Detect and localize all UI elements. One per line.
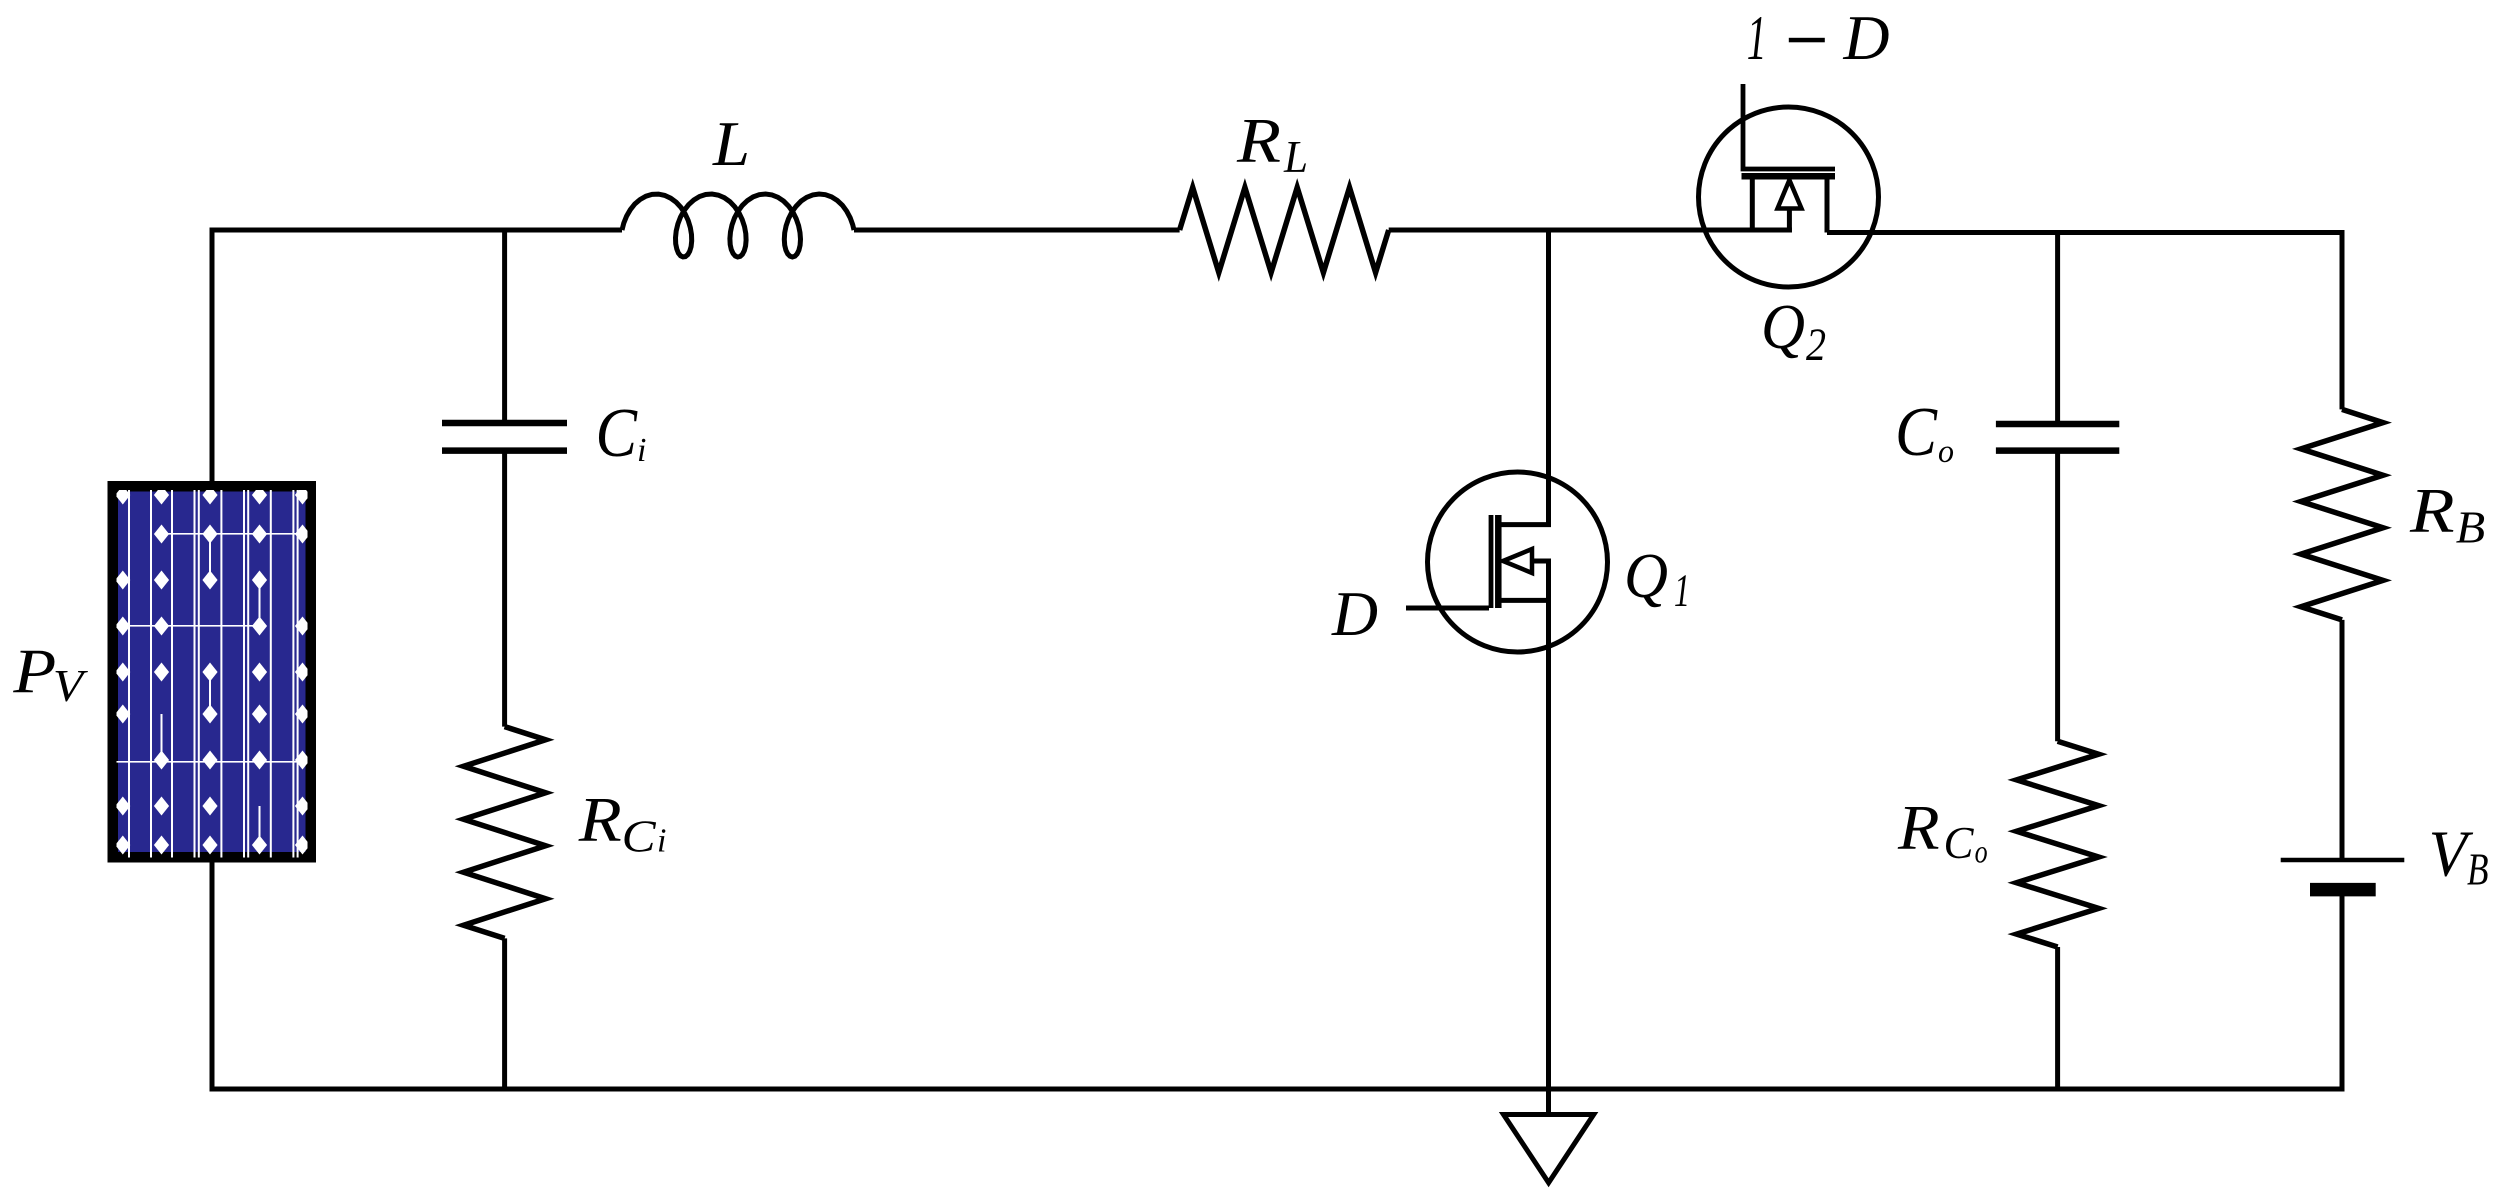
svg-text:D: D [1331, 579, 1378, 649]
solar panel PV [113, 486, 311, 858]
svg-text:o: o [1975, 835, 1988, 871]
svg-text:Q: Q [1761, 292, 1805, 362]
ground [1504, 1115, 1594, 1183]
wire bottom bus: PV bottom, along bottom, up right side to battery minus [212, 862, 2342, 1089]
PV cell vertical gridlines [128, 490, 130, 858]
svg-text:R: R [578, 785, 622, 855]
svg-text:B: B [2467, 843, 2489, 894]
svg-text:i: i [657, 823, 666, 860]
svg-text:1: 1 [1674, 565, 1690, 617]
wire node B: top bus junction down to Co top plate [2055, 230, 2060, 424]
transistor Q1 (NMOS) [1406, 472, 1608, 652]
svg-text:R: R [2409, 476, 2455, 546]
wire node A: top bus junction down to Ci top plate [502, 230, 507, 423]
resistor RL [1180, 188, 1389, 273]
resistor RCo [2017, 741, 2099, 947]
wire Q1 source/bulk down to bottom bus and ground stub [1546, 561, 1551, 1115]
svg-text:C: C [622, 811, 657, 862]
svg-text:D: D [1842, 3, 1889, 73]
wire top-left corner: top bus to PV panel top [212, 230, 622, 481]
svg-text:P: P [12, 636, 56, 706]
PV cell horizontal gridlines [160, 533, 308, 535]
svg-text:2: 2 [1806, 319, 1826, 371]
svg-text:C: C [1944, 817, 1975, 868]
wire RCo bottom to bottom bus [2055, 947, 2060, 1089]
svg-text:1: 1 [1747, 2, 1767, 73]
svg-text:L: L [1283, 131, 1308, 182]
svg-text:Q: Q [1624, 541, 1668, 611]
svg-text:V: V [53, 660, 89, 711]
transistor Q2 (NMOS, rotated) [1699, 84, 1879, 287]
wire RB top to top-right corner to Q2 source stub [1827, 233, 2342, 410]
svg-text:L: L [712, 109, 750, 179]
resistor RCi [464, 727, 546, 939]
PV cell diamond contacts [115, 486, 130, 505]
wire Co bottom plate to RCo top [2055, 451, 2060, 742]
wire Q1 drain: top bus junction down to drain stub [1546, 230, 1551, 525]
svg-text:B: B [2456, 501, 2485, 552]
wire Q2 bulk stub to RL right end (node between RL and Q2, junction to Q1 drain) [1389, 228, 1792, 233]
inductor L [622, 194, 854, 257]
battery VB [2281, 858, 2405, 863]
capacitor Co [1996, 424, 2119, 451]
wire RL left end to inductor right end [854, 228, 1180, 233]
svg-text:C: C [1895, 394, 1938, 471]
wire Ci bottom plate to RCi top [502, 451, 507, 727]
capacitor Ci [442, 423, 567, 451]
wire battery plus plate up to RB bottom [2340, 620, 2345, 858]
svg-text:R: R [1897, 793, 1940, 863]
svg-text:i: i [637, 432, 646, 469]
wire RCi bottom to bottom bus [502, 938, 507, 1089]
resistor RB [2301, 409, 2383, 620]
svg-text:C: C [596, 395, 639, 472]
svg-text:R: R [1236, 106, 1281, 176]
svg-text:o: o [1938, 434, 1954, 470]
